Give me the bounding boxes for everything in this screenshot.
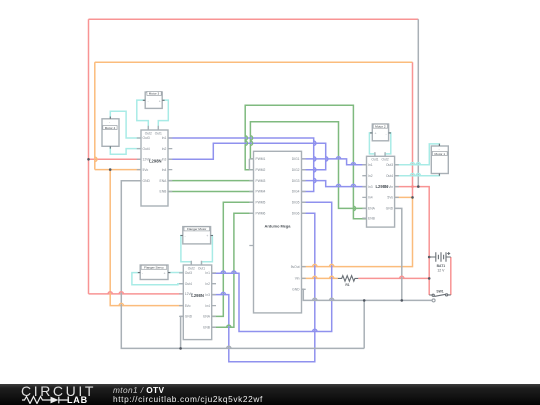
wire: gray U2 GND drop <box>395 208 402 300</box>
wire: green PWM2 loop to U2 ENB (outer rectangle) <box>245 105 366 219</box>
svg-text:In2: In2 <box>162 147 167 151</box>
svg-text:In4: In4 <box>205 304 210 308</box>
wire: cyan Motor4 top to U1 Out3 <box>110 111 141 138</box>
svg-text:Flanger Servo: Flanger Servo <box>144 266 164 270</box>
svg-text:SW1: SW1 <box>436 290 443 294</box>
svg-text:PWM4: PWM4 <box>256 190 266 194</box>
wire: red battery right side to switch <box>450 257 452 295</box>
svg-text:DIG6: DIG6 <box>292 211 300 215</box>
U3 pin labels <box>185 266 211 329</box>
svg-text:DIG5: DIG5 <box>292 201 300 205</box>
svg-text:In3: In3 <box>368 185 373 189</box>
svg-text:In4: In4 <box>162 168 167 172</box>
wire: green ENB-U1 to Arduino PWM4 <box>168 191 254 193</box>
svg-text:GND: GND <box>185 315 193 319</box>
svg-text:GND: GND <box>143 179 151 183</box>
svg-text:Motor 2: Motor 2 <box>375 125 386 129</box>
svg-text:Out2: Out2 <box>382 158 389 162</box>
svg-text:GND: GND <box>292 288 300 292</box>
U3 pin stubs <box>179 261 216 328</box>
motor M3 label <box>147 91 161 103</box>
motor M2 body <box>372 124 388 141</box>
svg-text:PWM6: PWM6 <box>256 211 266 215</box>
svg-text:In4: In4 <box>368 196 373 200</box>
svg-text:12 V: 12 V <box>437 269 445 273</box>
Flanger Motor body <box>183 227 211 244</box>
svg-text:5Vo: 5Vo <box>387 196 393 200</box>
svg-text:In1: In1 <box>205 271 210 275</box>
wire: cyan Motor3 left to U1 Out2 <box>137 100 149 130</box>
wire 12V net: top red horizontal <box>89 18 419 20</box>
wire: blue U1-In3 to Arduino DIG2 <box>168 143 326 170</box>
svg-text:+: + <box>206 234 208 238</box>
svg-text:Flanger Motor: Flanger Motor <box>187 227 206 231</box>
wire: orange U2 5Vo to junction <box>395 196 413 198</box>
wire: gray vertical right (top corner down to 12V junction) <box>417 19 419 186</box>
wire: cyan U2 Out4 to Motor1 bottom <box>395 174 440 176</box>
wire: cyan U3 Out4 loop to Servo left pin <box>132 273 183 285</box>
svg-text:Out2: Out2 <box>145 131 152 135</box>
logo squiggle: resistor + diode <box>22 395 68 404</box>
U4 pin stubs <box>249 159 305 289</box>
svg-text:Out1: Out1 <box>198 266 205 270</box>
svg-text:Motor 4: Motor 4 <box>105 126 116 130</box>
wire 5V net: orange top horizontal <box>95 61 413 63</box>
wire hop bumps at crossings <box>108 276 404 294</box>
wire: cyan Flanger Motor left to U3 Out2 <box>181 236 191 266</box>
svg-text:Motor 3: Motor 3 <box>149 92 160 96</box>
wire: gray riser between ground buses <box>363 300 365 348</box>
svg-text:In3: In3 <box>205 293 210 297</box>
motor M4 label <box>103 120 117 130</box>
wire: gray U1 GND down-right ground bus <box>121 181 364 349</box>
svg-text:Arduino Mega: Arduino Mega <box>265 223 292 228</box>
wire: cyan U3 Out3 to Servo right pin <box>168 272 183 274</box>
svg-text:DIG2: DIG2 <box>292 168 300 172</box>
wire: cyan Motor2 right to U2 top pin2 <box>385 133 391 156</box>
svg-text:Out1: Out1 <box>155 131 162 135</box>
wire: orange Arduino Vin to R1 <box>302 277 338 279</box>
svg-text:Motor 1: Motor 1 <box>435 152 446 156</box>
battery BAT1 <box>429 252 451 262</box>
svg-text:GND: GND <box>386 207 394 211</box>
svg-text:In3: In3 <box>162 158 167 162</box>
svg-text:DIG4: DIG4 <box>292 190 300 194</box>
svg-text:In1: In1 <box>162 136 167 140</box>
wire: blue DIG1 to U2-In1 <box>302 159 367 165</box>
svg-text:In2: In2 <box>368 174 373 178</box>
wire: blue DIG6 to U3-In3 <box>212 213 315 362</box>
wire: blue DIG3 to U2-In3 <box>302 181 367 187</box>
wire: cyan Motor2 left to U2 top pin1 <box>369 133 375 156</box>
wire: orange branch vertical to U3 5Vo <box>110 170 183 306</box>
L298N U1 body <box>141 130 168 206</box>
motor M4 body <box>102 119 119 147</box>
svg-text:DIG3: DIG3 <box>292 179 300 183</box>
Flanger Servo label <box>141 265 167 275</box>
U1 pin stubs <box>137 126 173 192</box>
motor pin stubs <box>110 100 439 272</box>
svg-text:ENA: ENA <box>368 207 376 211</box>
Flanger Servo body <box>140 265 168 280</box>
svg-text:Out3: Out3 <box>185 271 192 275</box>
wire: blue U1-In1 to Arduino DIG4 <box>168 138 314 192</box>
svg-text:BAT1: BAT1 <box>437 264 446 268</box>
wire: gray U3 GND drop to ground bus <box>181 316 184 348</box>
U4 Arduino pin labels <box>256 157 301 291</box>
motor M1 body <box>431 146 448 174</box>
svg-text:Out2: Out2 <box>188 266 195 270</box>
motor M1 label <box>432 147 447 156</box>
svg-text:Out1: Out1 <box>371 158 378 162</box>
resistor R1 body <box>338 276 359 282</box>
wire: cyan Motor3 right to U1 Out1 <box>158 100 168 130</box>
svg-text:+: + <box>375 131 377 135</box>
wire: blue DIG5 to U3-In1 <box>212 202 332 331</box>
wire: green PWM6 to U3 ENB <box>212 213 254 327</box>
U2 pin stubs <box>362 152 399 218</box>
wire: red right vertical (from orange top corner down) <box>412 62 414 197</box>
svg-text:Out4: Out4 <box>143 147 150 151</box>
wire: cyan U2 Out3 to Motor1 top <box>395 144 440 165</box>
svg-text:PWM3: PWM3 <box>256 179 266 183</box>
Flanger Motor label <box>184 227 210 238</box>
svg-text:L298N: L298N <box>376 184 389 189</box>
Arduino Mega U4 body <box>254 151 302 313</box>
svg-text:R1: R1 <box>345 283 349 287</box>
svg-text:Out3: Out3 <box>386 163 393 167</box>
svg-text:Out4: Out4 <box>386 174 393 178</box>
wire: red U2 12Vin to battery <box>395 187 430 295</box>
wire 5V net: orange left vertical <box>94 62 96 169</box>
svg-text:PWM2: PWM2 <box>256 168 266 172</box>
svg-text:+: + <box>159 99 161 103</box>
svg-text:+: + <box>164 271 166 275</box>
svg-text:5vOut: 5vOut <box>291 265 300 269</box>
wire: red from R1 to battery vertical <box>358 277 429 279</box>
svg-text:ENB: ENB <box>160 190 168 194</box>
svg-text:Vin: Vin <box>295 277 300 281</box>
wire: green PWM5 to U3 ENA <box>212 202 254 316</box>
U2 pin labels <box>368 158 394 221</box>
wire: red to U3 12Vin <box>89 293 184 295</box>
wire: red branch to U1 12Vin <box>89 158 142 160</box>
svg-text:In2: In2 <box>205 282 210 286</box>
svg-text:DIG1: DIG1 <box>292 157 300 161</box>
svg-text:L298N: L298N <box>191 293 204 298</box>
wire: cyan Flanger Motor right to U3 Out1 <box>202 236 213 266</box>
wire: cyan Motor4 bottom to U1 Out4 <box>110 146 141 154</box>
wire: green ENA-U1 to Arduino PWM3 <box>168 180 254 182</box>
L298N U3 body <box>183 265 211 340</box>
svg-text:5Vo: 5Vo <box>143 168 149 172</box>
wire 12V net: left red vertical down to U3 <box>88 19 90 294</box>
svg-text:PWM5: PWM5 <box>256 201 266 205</box>
motor M3 body <box>145 92 162 108</box>
svg-text:In1: In1 <box>368 163 373 167</box>
svg-text:Out3: Out3 <box>143 136 150 140</box>
L298N U2 body <box>367 156 395 227</box>
wire: orange to U1 5Vo <box>95 169 141 171</box>
svg-text:L298N: L298N <box>149 159 162 164</box>
wire: orange right vertical to Arduino 5vOut <box>302 197 413 266</box>
node: open terminal circle <box>432 299 435 302</box>
svg-text:ENA: ENA <box>203 315 211 319</box>
U1 pin labels <box>143 131 168 193</box>
wire: green PWM1 loop to U2 ENA (inner rectangle) <box>250 122 366 209</box>
wire: gray link between PWM1 and PWM2 pins <box>248 159 250 170</box>
wire: gray Arduino GND bus to open node <box>302 289 433 300</box>
switch SW1 <box>429 294 451 297</box>
svg-text:ENB: ENB <box>368 216 376 220</box>
svg-text:5Vo: 5Vo <box>185 304 191 308</box>
motor M2 label <box>373 124 387 136</box>
CircuitLab footer logo <box>21 383 96 399</box>
svg-text:ENB: ENB <box>203 326 211 330</box>
svg-text:Out4: Out4 <box>185 282 192 286</box>
svg-text:PWM1: PWM1 <box>256 157 266 161</box>
svg-text:ENA: ENA <box>160 179 168 183</box>
